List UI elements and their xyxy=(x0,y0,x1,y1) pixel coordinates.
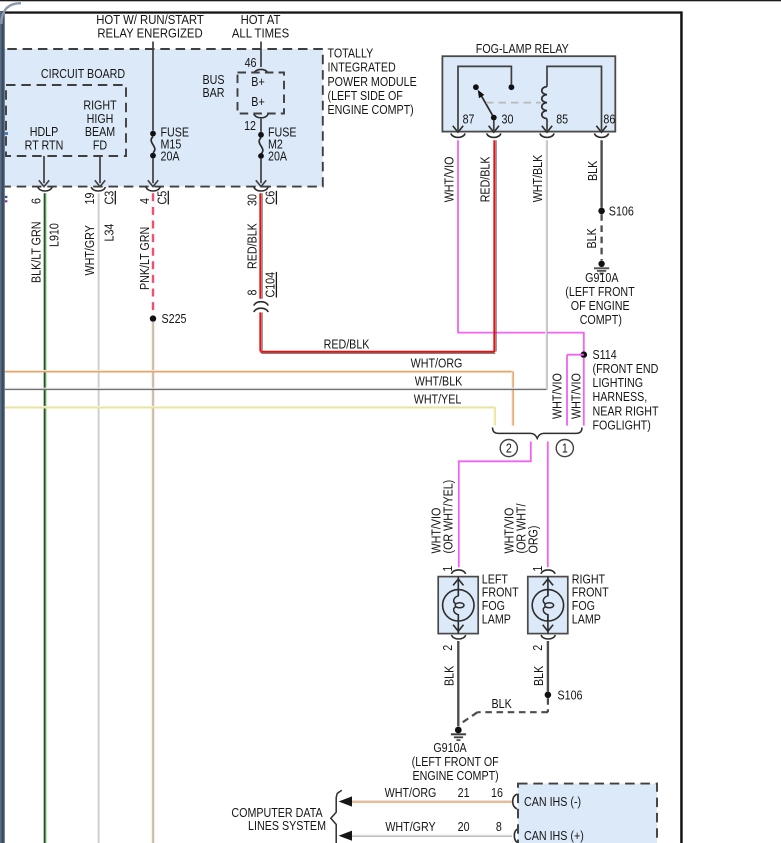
svg-text:86: 86 xyxy=(603,113,615,127)
svg-text:30: 30 xyxy=(502,113,514,127)
svg-text:L34: L34 xyxy=(103,223,117,241)
svg-text:WHT/GRY: WHT/GRY xyxy=(385,820,436,834)
svg-text:20: 20 xyxy=(458,820,470,834)
svg-text:WHT/YEL: WHT/YEL xyxy=(414,393,462,407)
svg-text:OF ENGINE: OF ENGINE xyxy=(571,299,630,313)
wire HDLP RT RTN to pin 6 xyxy=(39,156,49,187)
fuse M2 20A xyxy=(258,126,297,164)
svg-text:TOTALLY: TOTALLY xyxy=(328,47,374,61)
lamp RIGHT FRONT FOG LAMP xyxy=(528,573,609,634)
pin 12 connector xyxy=(244,114,268,133)
connector C104 pin 8 xyxy=(246,271,278,312)
svg-text:LIGHTING: LIGHTING xyxy=(593,376,644,390)
svg-text:BLK/LT GRN: BLK/LT GRN xyxy=(30,222,44,283)
wire BLK dashed joining grounds xyxy=(461,697,548,723)
svg-text:G910A: G910A xyxy=(433,741,467,755)
wire from HOT AT ALL TIMES to bus bar pin 46 xyxy=(260,42,262,68)
svg-text:S114: S114 xyxy=(593,348,618,362)
svg-text:WHT/ORG: WHT/ORG xyxy=(411,357,463,371)
svg-text:COMPT): COMPT) xyxy=(580,313,622,327)
svg-text:46: 46 xyxy=(245,56,257,70)
wire WHT/VIO below S114 xyxy=(570,358,584,426)
svg-text:FOGLIGHT): FOGLIGHT) xyxy=(593,419,651,433)
node HOT W/ RUN/START RELAY ENERGIZED xyxy=(96,13,204,41)
wire fuse M15 to pin 4 xyxy=(148,159,158,187)
TIPM module box (Totally Integrated Power Module) xyxy=(0,49,323,187)
connector cups below relay xyxy=(451,134,609,138)
svg-text:(LEFT FRONT OF: (LEFT FRONT OF xyxy=(412,755,499,769)
svg-text:LEFT: LEFT xyxy=(482,573,508,587)
svg-text:L910: L910 xyxy=(48,223,62,247)
svg-text:(LEFT SIDE OF: (LEFT SIDE OF xyxy=(328,89,403,103)
svg-text:FOG-LAMP RELAY: FOG-LAMP RELAY xyxy=(476,42,569,56)
pin label 4 / C5 xyxy=(138,190,170,204)
svg-text:HARNESS,: HARNESS, xyxy=(593,390,648,404)
svg-text:2: 2 xyxy=(506,442,512,456)
svg-text:RED/BLK: RED/BLK xyxy=(479,156,493,202)
relay coil (pin 85 - 86) xyxy=(542,66,602,130)
svg-text:12: 12 xyxy=(244,119,256,133)
wire WHT/VIO (OR WHT/YEL) to left fog lamp xyxy=(430,442,532,568)
svg-text:FRONT: FRONT xyxy=(572,586,609,600)
splice S225 xyxy=(150,312,187,326)
wire WHT/VIO (OR WHT/ORG) to right fog lamp xyxy=(503,442,548,568)
svg-text:RIGHT: RIGHT xyxy=(572,573,605,587)
svg-text:19: 19 xyxy=(83,193,97,205)
svg-text:ENGINE COMPT): ENGINE COMPT) xyxy=(412,769,498,783)
svg-text:CAN IHS (+): CAN IHS (+) xyxy=(524,829,584,843)
wire RED/BLK from relay 30 xyxy=(479,140,497,352)
svg-text:COMPUTER DATA: COMPUTER DATA xyxy=(231,806,322,820)
svg-text:RIGHT: RIGHT xyxy=(83,99,116,113)
svg-text:RED/BLK: RED/BLK xyxy=(246,223,260,269)
svg-text:B+: B+ xyxy=(251,95,265,109)
svg-text:C3: C3 xyxy=(103,191,117,205)
svg-text:NEAR RIGHT: NEAR RIGHT xyxy=(593,405,659,419)
wire RED/BLK horizontal run xyxy=(260,338,495,354)
wire RED/BLK from C6 to C104 xyxy=(246,193,262,298)
wire BLK/LT GRN L910 xyxy=(30,193,62,843)
svg-text:21: 21 xyxy=(458,786,470,800)
svg-text:LINES SYSTEM: LINES SYSTEM xyxy=(248,819,326,833)
relay switch blade (pin 30) xyxy=(478,90,497,131)
svg-text:85: 85 xyxy=(556,113,568,127)
wire PNK/LT GRN below S225 xyxy=(152,322,153,843)
svg-text:WHT/BLK: WHT/BLK xyxy=(531,155,545,203)
ground G910A (lower) xyxy=(412,727,499,784)
wire stub entering circuit board from left (blue) xyxy=(5,132,8,135)
splice S106 xyxy=(598,205,634,219)
svg-text:G910A: G910A xyxy=(585,271,619,285)
svg-text:S225: S225 xyxy=(162,312,187,326)
wire fuse M2 to pin 30 xyxy=(256,159,266,187)
brace for computer data lines xyxy=(331,790,342,843)
svg-text:ALL TIMES: ALL TIMES xyxy=(232,26,289,41)
node HOT AT ALL TIMES xyxy=(232,13,289,41)
left fog lamp pin 1 xyxy=(441,566,465,574)
svg-text:8: 8 xyxy=(246,290,260,296)
svg-text:ENGINE COMPT): ENGINE COMPT) xyxy=(328,103,414,117)
svg-text:HIGH: HIGH xyxy=(87,112,114,126)
wire WHT/VIO branch from S114 xyxy=(551,355,584,426)
bus bar B+ box xyxy=(238,73,285,114)
svg-text:FRONT: FRONT xyxy=(482,586,519,600)
svg-text:RT RTN: RT RTN xyxy=(25,139,64,153)
cut-off label marks at left edge xyxy=(5,196,8,198)
svg-text:B+: B+ xyxy=(251,75,265,89)
svg-text:8: 8 xyxy=(496,820,502,834)
circled 1 xyxy=(556,440,573,457)
splice S106 (lower) xyxy=(545,689,583,703)
wire WHT/GRY L34 xyxy=(83,193,117,843)
svg-text:(FRONT END: (FRONT END xyxy=(593,362,659,376)
wire BLK dashed to ground xyxy=(585,214,602,260)
svg-text:RED/BLK: RED/BLK xyxy=(324,338,370,352)
wire WHT/ORG horizontal xyxy=(5,357,513,426)
label COMPUTER DATA LINES SYSTEM xyxy=(231,806,326,833)
circled 2 xyxy=(500,440,517,457)
label TOTALLY INTEGRATED POWER MODULE xyxy=(328,47,417,117)
svg-text:C5: C5 xyxy=(156,190,170,204)
pin label 19 / C3 xyxy=(83,191,117,205)
wire BLK from relay 86 xyxy=(586,140,601,207)
node RIGHT HIGH BEAM FD xyxy=(83,99,116,153)
svg-text:BLK: BLK xyxy=(492,697,512,711)
ground G910A (upper) xyxy=(565,261,634,328)
node HDLP RT RTN xyxy=(25,125,64,152)
left fog lamp pin 2 xyxy=(441,635,465,651)
svg-text:HDLP: HDLP xyxy=(30,125,59,139)
svg-text:20A: 20A xyxy=(161,150,180,164)
svg-text:C104: C104 xyxy=(264,271,278,297)
wire PNK/LT GRN (dashed) xyxy=(138,193,153,315)
splice S114 xyxy=(581,348,659,433)
wire WHT/BLK from relay 85 xyxy=(531,140,547,389)
svg-text:BUS: BUS xyxy=(202,73,224,87)
circuit board box xyxy=(6,67,126,156)
relay pin arrows xyxy=(453,126,607,132)
svg-text:LAMP: LAMP xyxy=(482,613,511,627)
wire WHT/BLK horizontal xyxy=(5,375,547,390)
svg-text:FOG: FOG xyxy=(572,599,595,613)
svg-text:WHT/VIO: WHT/VIO xyxy=(443,157,457,203)
svg-text:WHT/VIO: WHT/VIO xyxy=(551,373,565,419)
wire WHT/YEL horizontal xyxy=(5,393,495,426)
svg-text:C6: C6 xyxy=(264,191,278,205)
svg-text:(OR WHT/YEL): (OR WHT/YEL) xyxy=(442,480,456,554)
svg-text:FOG: FOG xyxy=(482,599,505,613)
relay fixed contact dot xyxy=(473,84,479,90)
fuse M15 20A xyxy=(150,126,189,164)
svg-text:POWER MODULE: POWER MODULE xyxy=(328,75,417,89)
svg-text:ORG): ORG) xyxy=(527,525,541,553)
svg-text:S106: S106 xyxy=(609,205,634,219)
wire RED/BLK from C104 to corner xyxy=(260,312,262,351)
svg-text:87: 87 xyxy=(463,113,475,127)
svg-text:(LEFT FRONT: (LEFT FRONT xyxy=(565,285,634,299)
label BUS BAR xyxy=(202,73,224,100)
svg-text:WHT/GRY: WHT/GRY xyxy=(83,225,97,276)
FOG-LAMP RELAY box xyxy=(442,42,615,132)
svg-text:BLK: BLK xyxy=(532,666,546,686)
svg-text:4: 4 xyxy=(138,198,152,204)
svg-text:WHT/VIO: WHT/VIO xyxy=(570,373,584,419)
window edge strip xyxy=(0,11,5,843)
svg-text:BLK: BLK xyxy=(586,161,600,181)
svg-text:16: 16 xyxy=(491,786,503,800)
wire WHT/VIO from relay 87 xyxy=(443,140,584,352)
CAN IHS module box xyxy=(518,784,657,843)
pin label 30 / C6 xyxy=(246,191,278,206)
svg-text:BAR: BAR xyxy=(202,86,224,100)
svg-text:30: 30 xyxy=(246,194,260,206)
svg-text:BLK: BLK xyxy=(585,228,599,248)
svg-text:20A: 20A xyxy=(268,150,287,164)
relay pin labels xyxy=(463,113,616,127)
svg-text:BLK: BLK xyxy=(443,666,457,686)
wire RIGHT HIGH BEAM FD to pin 19 xyxy=(95,156,105,187)
svg-text:INTEGRATED: INTEGRATED xyxy=(328,61,396,75)
arrow to computer data line 1 xyxy=(339,796,352,806)
wire BLK from left lamp xyxy=(443,641,458,726)
svg-text:LAMP: LAMP xyxy=(572,613,601,627)
lamp LEFT FRONT FOG LAMP xyxy=(438,573,518,634)
right fog lamp pin 1 xyxy=(531,566,555,574)
svg-text:1: 1 xyxy=(562,442,568,456)
svg-text:BEAM: BEAM xyxy=(85,125,115,139)
svg-text:FD: FD xyxy=(93,139,107,153)
wire from HOT W/ RUN/START to fuse M15 xyxy=(152,42,154,131)
wire WHT/ORG data line xyxy=(352,786,517,809)
svg-text:PNK/LT GRN: PNK/LT GRN xyxy=(138,227,152,290)
connector cups below TIPM xyxy=(38,187,268,191)
svg-text:6: 6 xyxy=(30,198,44,204)
wire BLK from right lamp xyxy=(532,641,547,691)
relay actuation dashed link xyxy=(486,102,541,104)
svg-text:CAN IHS (-): CAN IHS (-) xyxy=(524,795,581,809)
svg-text:WHT/BLK: WHT/BLK xyxy=(415,375,463,389)
svg-text:CIRCUIT BOARD: CIRCUIT BOARD xyxy=(41,67,125,81)
pin 46 connector xyxy=(245,56,269,73)
svg-text:S106: S106 xyxy=(558,689,583,703)
right fog lamp pin 2 xyxy=(531,635,555,651)
svg-text:WHT/ORG: WHT/ORG xyxy=(385,786,437,800)
arrow to computer data line 2 xyxy=(339,831,352,841)
wire WHT/GRY data line xyxy=(352,820,519,843)
svg-text:2: 2 xyxy=(441,645,455,651)
brace grouping wires xyxy=(493,428,583,439)
svg-text:RELAY ENERGIZED: RELAY ENERGIZED xyxy=(97,26,203,41)
svg-text:2: 2 xyxy=(531,645,545,651)
relay contact 87 internal path xyxy=(458,66,514,130)
